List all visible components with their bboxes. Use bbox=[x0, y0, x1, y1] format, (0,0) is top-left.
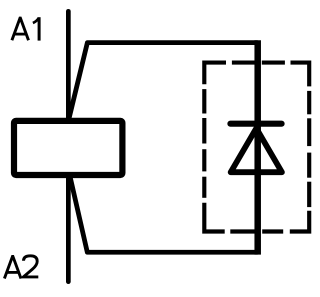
wire: right vertical branch (diode leads) bbox=[254, 40, 261, 254]
coil K1 (contactor coil rectangle) bbox=[14, 121, 122, 175]
dashed box top edge dash bbox=[232, 61, 255, 65]
wire: left vertical conductor through coil (terminal A1 to A2) bbox=[66, 11, 71, 281]
dashed box right edge dash bbox=[307, 182, 311, 207]
dashed box right edge dash bbox=[307, 118, 311, 146]
dashed box top-left corner dash bbox=[204, 63, 226, 85]
wire: bottom slant from coil to bottom horizontal wire bbox=[70, 176, 258, 253]
dashed box left edge dash bbox=[202, 149, 206, 171]
suppressor module boundary: dashed box (drawn as explicit dash segments) bbox=[204, 63, 309, 232]
dashed box bottom-left corner dash bbox=[204, 203, 224, 232]
dashed box top-right corner dash bbox=[291, 63, 310, 87]
diode V1 cathode bar bbox=[230, 121, 281, 127]
dashed box left edge dash bbox=[202, 177, 206, 198]
dashed box left edge dash bbox=[202, 118, 206, 144]
dashed box bottom edge dash bbox=[262, 229, 283, 233]
dashed box bottom-right corner dash bbox=[290, 211, 309, 232]
terminal label A2 bbox=[4, 256, 38, 279]
dashed box bottom edge dash bbox=[230, 229, 255, 233]
dashed box top edge dash bbox=[262, 61, 285, 65]
dashed box right edge dash bbox=[307, 153, 311, 178]
wire: top slant from coil to top horizontal wire bbox=[69, 43, 258, 121]
diode V1 anode triangle bbox=[231, 128, 282, 172]
dashed box right edge dash bbox=[307, 91, 311, 114]
terminal label A1 bbox=[12, 17, 39, 40]
dashed box left edge dash bbox=[202, 89, 206, 113]
